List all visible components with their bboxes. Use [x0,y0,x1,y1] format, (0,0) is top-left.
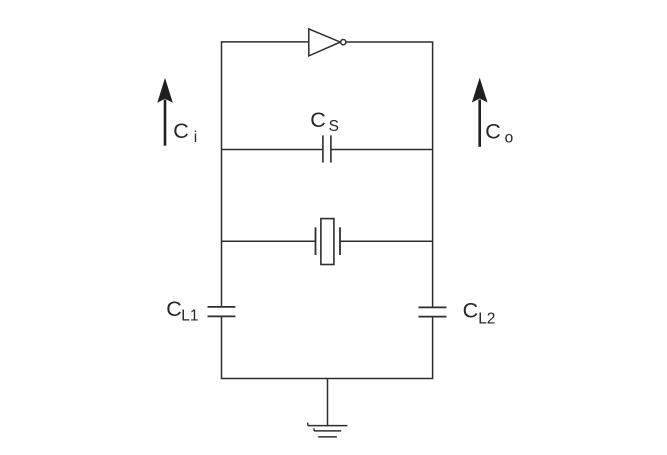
svg-text:C: C [173,119,189,143]
wire left vertical [221,42,223,379]
label Ci [173,119,197,146]
capacitor CL1 [208,307,236,317]
svg-text:C: C [310,108,326,132]
svg-text:i: i [194,129,197,146]
svg-text:L2: L2 [478,310,495,327]
label CL1 [166,297,198,325]
wire middle branch left (to CS) [222,149,323,151]
svg-text:S: S [329,118,339,135]
label Co [485,120,513,147]
svg-text:L1: L1 [181,308,198,325]
capacitor CL2 [418,307,446,316]
wire bottom [221,378,433,380]
ground [308,379,348,437]
crystal Y1 [316,219,341,265]
svg-text:C: C [485,120,501,144]
wire right vertical [432,42,434,379]
wire top left segment [221,41,309,43]
svg-text:o: o [505,130,514,147]
label CL2 [463,299,496,328]
inverter U1 [309,29,346,56]
capacitor CS [323,135,331,162]
wire crystal branch left [222,240,316,242]
label CS [310,108,339,135]
arrow Ci [157,78,173,146]
wire top right segment [346,41,433,43]
wire middle branch right (from CS) [331,149,433,151]
arrow Co [472,78,488,147]
svg-text:C: C [463,299,479,323]
wire crystal branch right [340,240,433,242]
svg-text:C: C [166,297,182,321]
